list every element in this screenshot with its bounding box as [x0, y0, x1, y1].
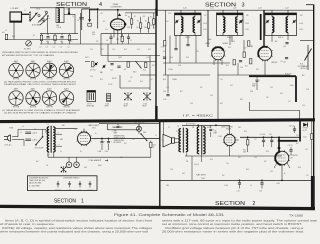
svg-text:1MEG: 1MEG	[144, 27, 148, 29]
svg-text:6.3: 6.3	[60, 151, 62, 153]
svg-text:BOTTOM: BOTTOM	[63, 106, 70, 108]
svg-text:150K: 150K	[306, 89, 309, 91]
svg-text:C-33: C-33	[305, 149, 308, 151]
svg-text:C-6: C-6	[106, 40, 108, 42]
svg-text:C-48: C-48	[163, 91, 166, 93]
svg-text:R-32: R-32	[220, 103, 223, 105]
svg-text:R-21: R-21	[245, 66, 248, 68]
svg-text:20,000-ohm resistance meter in: 20,000-ohm resistance meter in series wi…	[162, 229, 304, 233]
svg-text:C-40: C-40	[183, 8, 187, 10]
svg-text:B+: B+	[95, 133, 97, 135]
svg-text:BOTTOM: BOTTOM	[13, 106, 20, 108]
svg-text:TIE-UP: TIE-UP	[142, 106, 147, 108]
svg-text:R-16: R-16	[140, 81, 143, 83]
svg-text:C-21: C-21	[296, 135, 299, 137]
svg-text:C-9 OSC.: C-9 OSC.	[90, 70, 96, 72]
svg-text:R-7: R-7	[128, 17, 130, 19]
svg-text:L-2: L-2	[72, 16, 74, 18]
svg-text:ELECTRO.: ELECTRO.	[55, 189, 62, 191]
svg-text:BOTTOM: BOTTOM	[46, 106, 53, 108]
svg-text:6K6-GT: 6K6-GT	[226, 129, 231, 131]
svg-text:C-14: C-14	[105, 29, 108, 31]
svg-text:R-36: R-36	[298, 167, 301, 169]
svg-text:R-17: R-17	[166, 21, 169, 23]
svg-text:TO PIN 3: TO PIN 3	[303, 128, 309, 130]
svg-text:C-42: C-42	[233, 8, 237, 10]
svg-text:R-3: R-3	[40, 21, 42, 23]
svg-text:C-38: C-38	[168, 13, 171, 15]
svg-text:Items (A, B, C, D) in symbol o: Items (A, B, C, D) in symbol of band-swi…	[5, 218, 152, 222]
svg-text:7B6: 7B6	[250, 46, 253, 48]
svg-text:SW-1B: SW-1B	[84, 8, 88, 10]
svg-text:20MF: 20MF	[252, 86, 256, 88]
svg-text:R-12: R-12	[124, 49, 127, 51]
svg-text:2ND DET.: 2ND DET.	[271, 62, 278, 64]
svg-text:.05: .05	[250, 185, 252, 187]
svg-text:BOTTOM: BOTTOM	[30, 106, 37, 108]
svg-text:C-23 .01: C-23 .01	[289, 125, 294, 127]
svg-text:C-35: C-35	[226, 163, 229, 165]
svg-text:R-20: R-20	[186, 57, 189, 59]
svg-text:2.2MEG: 2.2MEG	[172, 79, 177, 81]
svg-text:22K: 22K	[96, 41, 98, 43]
svg-text:3RD I.F.: 3RD I.F.	[278, 37, 284, 39]
svg-text:PIN 2: PIN 2	[238, 127, 242, 129]
svg-text:C-3: C-3	[60, 47, 62, 49]
svg-text:C-45: C-45	[283, 46, 286, 48]
svg-text:BOTTOM: BOTTOM	[46, 79, 53, 81]
svg-text:C-32: C-32	[132, 139, 135, 141]
svg-text:R-27: R-27	[180, 91, 183, 93]
svg-text:R-22: R-22	[304, 136, 307, 138]
svg-text:10K: 10K	[200, 87, 202, 89]
svg-text:R-15: R-15	[100, 79, 103, 81]
svg-text:117V: 117V	[112, 127, 115, 129]
svg-text:C-1: C-1	[20, 132, 22, 134]
svg-text:FIL: FIL	[80, 151, 82, 153]
svg-text:C-3: C-3	[67, 47, 69, 49]
svg-text:Figure 41. Complete Schematic: Figure 41. Complete Schematic of Model 4…	[114, 213, 224, 217]
svg-text:C-22 .05: C-22 .05	[288, 145, 293, 147]
svg-text:C-2: C-2	[24, 10, 26, 12]
svg-text:C-53: C-53	[270, 87, 273, 89]
svg-text:C-21: C-21	[130, 77, 133, 79]
svg-text:RED: RED	[62, 125, 65, 127]
svg-text:R-34: R-34	[210, 159, 213, 161]
svg-text:R-23: R-23	[256, 69, 259, 71]
svg-text:2ND: 2ND	[246, 15, 249, 17]
svg-text:C-56: C-56	[210, 95, 213, 97]
svg-text:33: 33	[153, 146, 155, 148]
svg-text:R-14: R-14	[152, 65, 155, 67]
svg-text:R-24: R-24	[243, 150, 246, 152]
svg-text:C-47B: C-47B	[252, 84, 256, 86]
svg-text:7S7: 7S7	[291, 157, 294, 159]
svg-text:C-30: C-30	[120, 157, 123, 159]
svg-text:C-27: C-27	[254, 139, 257, 141]
svg-text:R-25: R-25	[238, 157, 241, 159]
svg-text:R-1: R-1	[33, 35, 35, 37]
svg-text:220K: 220K	[127, 27, 130, 29]
svg-text:R-18: R-18	[153, 144, 156, 146]
svg-text:BOTTOM: BOTTOM	[30, 79, 37, 81]
svg-text:SW-3: SW-3	[143, 132, 146, 134]
svg-text:C-8: C-8	[77, 20, 79, 22]
svg-text:2.2MEG: 2.2MEG	[168, 69, 173, 71]
svg-text:3RD: 3RD	[300, 15, 303, 17]
svg-text:10K: 10K	[70, 41, 72, 43]
svg-text:C-44: C-44	[285, 8, 289, 10]
svg-text:C-52: C-52	[220, 79, 223, 81]
svg-text:FUSE: FUSE	[10, 128, 14, 130]
svg-text:BOTTOM: BOTTOM	[13, 79, 20, 81]
svg-text:R-17: R-17	[124, 143, 127, 145]
svg-text:1MEG: 1MEG	[290, 85, 294, 87]
svg-text:2.2: 2.2	[5, 30, 7, 32]
svg-text:GRN: GRN	[60, 139, 63, 141]
svg-text:STRIP: STRIP	[105, 106, 109, 108]
svg-text:C-13: C-13	[128, 81, 131, 83]
svg-text:C-44: C-44	[232, 41, 235, 43]
svg-text:I.F. = 455KC: I.F. = 455KC	[183, 114, 214, 117]
svg-text:R-27: R-27	[296, 143, 299, 145]
svg-text:PM: PM	[186, 161, 188, 163]
svg-text:SECTION: SECTION	[215, 201, 246, 207]
svg-text:C-41: C-41	[210, 8, 214, 10]
svg-text:CONDENSER SYMBOLS: CONDENSER SYMBOLS	[63, 177, 80, 179]
svg-text:R-21: R-21	[226, 65, 229, 67]
svg-text:C-28: C-28	[259, 190, 262, 192]
svg-text:C-39: C-39	[161, 47, 164, 49]
svg-text:C-1B .05: C-1B .05	[32, 139, 38, 141]
svg-text:R-23: R-23	[244, 131, 247, 133]
svg-text:R-1 1MEG: R-1 1MEG	[24, 49, 31, 51]
svg-text:C-55: C-55	[166, 87, 169, 89]
svg-text:R-7: R-7	[145, 21, 147, 23]
svg-text:SECTION: SECTION	[205, 3, 236, 9]
svg-text:SW-2 ON-OFF: SW-2 ON-OFF	[35, 147, 44, 149]
svg-text:BLK: BLK	[36, 161, 39, 163]
svg-text:C-10: C-10	[100, 13, 103, 15]
svg-text:C-58: C-58	[190, 103, 193, 105]
svg-text:C-18: C-18	[137, 49, 140, 51]
svg-text:R-30: R-30	[300, 64, 303, 66]
svg-text:C-49 .05: C-49 .05	[194, 164, 199, 166]
svg-text:R-6: R-6	[125, 15, 127, 17]
svg-text:C-42B: C-42B	[245, 29, 249, 31]
svg-text:TO B+: TO B+	[163, 99, 167, 101]
svg-text:C-50: C-50	[240, 67, 243, 69]
svg-text:C-54: C-54	[237, 190, 240, 192]
svg-text:20MF: 20MF	[214, 133, 218, 135]
svg-text:TIE-UP: TIE-UP	[123, 106, 128, 108]
svg-text:C-11: C-11	[110, 70, 113, 72]
svg-text:C-29: C-29	[254, 157, 257, 159]
svg-text:T-2: T-2	[168, 127, 170, 129]
svg-text:SW-1C: SW-1C	[85, 57, 89, 59]
svg-text:C-3: C-3	[53, 47, 55, 49]
svg-text:OSC: OSC	[44, 11, 47, 13]
svg-text:5Y4: 5Y4	[74, 129, 77, 131]
svg-text:C-26: C-26	[214, 131, 217, 133]
svg-text:30MF: 30MF	[114, 133, 118, 135]
svg-text:455KC: 455KC	[118, 57, 122, 59]
svg-text:C-43: C-43	[258, 8, 262, 10]
svg-text:MEG: MEG	[12, 36, 15, 38]
svg-text:SPKR: SPKR	[98, 165, 102, 167]
svg-text:C-20: C-20	[90, 76, 93, 78]
svg-text:SW-1: SW-1	[133, 72, 137, 74]
svg-text:B+: B+	[284, 173, 286, 175]
svg-text:C-59: C-59	[302, 105, 305, 107]
svg-text:R-20: R-20	[163, 79, 166, 81]
svg-text:C-25: C-25	[269, 134, 272, 136]
svg-text:3: 3	[242, 3, 245, 9]
svg-text:L.W. ANT.: L.W. ANT.	[11, 7, 20, 10]
svg-text:C-19: C-19	[146, 57, 149, 59]
svg-text:GND: GND	[166, 185, 169, 187]
svg-text:C-24 .004: C-24 .004	[260, 134, 266, 136]
svg-text:COIL: COIL	[92, 34, 95, 36]
svg-text:R-11: R-11	[101, 49, 104, 51]
svg-text:6BA6: 6BA6	[206, 42, 210, 45]
svg-text:C-34: C-34	[270, 171, 273, 173]
svg-text:R-25: R-25	[230, 85, 233, 87]
svg-text:PILOT LIGHT #47: PILOT LIGHT #47	[134, 122, 145, 124]
svg-text:C-3: C-3	[46, 47, 48, 49]
svg-text:4: 4	[99, 2, 102, 8]
svg-text:R-19: R-19	[228, 47, 231, 49]
svg-text:2: 2	[253, 201, 256, 207]
svg-text:C-57: C-57	[288, 101, 291, 103]
svg-text:C-36: C-36	[170, 169, 173, 171]
svg-text:FIELD: FIELD	[207, 127, 211, 129]
svg-text:47K: 47K	[266, 97, 268, 99]
svg-text:5Y: 5Y	[58, 131, 60, 133]
svg-text:were measured between the poin: were measured between the points indicat…	[0, 229, 148, 233]
svg-text:C-28B: C-28B	[276, 183, 280, 185]
svg-text:R-7: R-7	[134, 16, 136, 18]
svg-text:C-37: C-37	[306, 175, 309, 177]
svg-text:K = 1000 OHMS: K = 1000 OHMS	[29, 185, 40, 187]
svg-text:C-49: C-49	[196, 51, 199, 53]
svg-text:35Y4: 35Y4	[92, 127, 96, 129]
svg-text:455 KC: 455 KC	[112, 78, 117, 80]
svg-text:.05: .05	[46, 41, 48, 43]
svg-text:C-30B: C-30B	[98, 151, 102, 153]
svg-text:TX-1000: TX-1000	[289, 213, 304, 217]
svg-text:R-18: R-18	[163, 51, 166, 53]
svg-text:GND: GND	[84, 167, 87, 169]
svg-text:C-48: C-48	[170, 57, 173, 59]
svg-text:1ST: 1ST	[204, 15, 207, 17]
svg-text:250K: 250K	[243, 152, 246, 154]
svg-text:1: 1	[81, 198, 84, 204]
svg-text:SECTION: SECTION	[54, 198, 76, 204]
svg-text:C-4: C-4	[48, 18, 50, 20]
svg-text:BOTTOM: BOTTOM	[63, 79, 70, 81]
svg-text:C-15: C-15	[90, 49, 93, 51]
svg-text:R-35: R-35	[182, 173, 185, 175]
svg-text:47K: 47K	[136, 27, 138, 29]
svg-text:100K: 100K	[178, 65, 181, 67]
svg-text:C-12: C-12	[150, 25, 153, 27]
svg-text:C-54B: C-54B	[201, 178, 205, 180]
svg-text:YEL: YEL	[46, 165, 49, 167]
svg-text:R-13: R-13	[148, 49, 151, 51]
svg-text:R-26: R-26	[266, 151, 269, 153]
svg-text:R-8: R-8	[143, 16, 145, 18]
svg-text:C-43B: C-43B	[299, 29, 303, 31]
svg-text:R-29 150K: R-29 150K	[285, 74, 292, 76]
svg-text:4 LUG: 4 LUG	[124, 103, 128, 105]
svg-text:R-2: R-2	[117, 39, 119, 41]
svg-text:R-9: R-9	[124, 69, 126, 71]
svg-text:R-7: R-7	[137, 21, 139, 23]
svg-text:OF 7S7: OF 7S7	[303, 130, 308, 132]
svg-text:R-10: R-10	[143, 70, 146, 72]
svg-text:CONVERTER: CONVERTER	[111, 7, 123, 9]
svg-text:R-4: R-4	[2, 32, 4, 34]
svg-text:of chassis to rear, in sequenc: of chassis to rear, in sequence.	[0, 222, 55, 226]
svg-text:C-3: C-3	[39, 47, 41, 49]
svg-text:C-17: C-17	[47, 154, 50, 156]
svg-text:6.3V: 6.3V	[58, 143, 61, 145]
svg-text:85V: 85V	[222, 175, 224, 177]
svg-text:1ST I.F.: 1ST I.F.	[87, 103, 92, 105]
svg-text:C-7: C-7	[130, 40, 132, 42]
svg-text:2 LUG: 2 LUG	[105, 103, 109, 105]
svg-text:C-41B: C-41B	[203, 29, 207, 31]
svg-text:.01: .01	[60, 41, 62, 43]
svg-text:series with a 117-volt, 60-cyc: series with a 117-volt, 60-cycle a-c inp…	[162, 218, 318, 222]
svg-text:R-26: R-26	[280, 93, 283, 95]
svg-text:C-30C: C-30C	[105, 151, 109, 153]
svg-text:L-4: L-4	[22, 126, 24, 128]
svg-text:R-7: R-7	[150, 17, 152, 19]
svg-text:C-51: C-51	[280, 61, 283, 63]
svg-text:R-28: R-28	[240, 99, 243, 101]
svg-text:4 LUG: 4 LUG	[143, 103, 147, 105]
svg-text:R-5: R-5	[103, 21, 105, 23]
svg-text:T-2: T-2	[177, 126, 179, 128]
svg-text:R-33: R-33	[246, 169, 249, 171]
svg-text:T-1: T-1	[47, 124, 49, 126]
svg-text:C-5: C-5	[66, 9, 68, 11]
svg-text:C-16: C-16	[112, 49, 115, 51]
svg-text:220K: 220K	[250, 91, 253, 93]
svg-text:C-46: C-46	[283, 62, 286, 64]
svg-text:set at minimum, tone control a: set at minimum, tone control at maximum …	[162, 222, 302, 226]
svg-text:10K: 10K	[264, 161, 266, 163]
svg-text:C-31: C-31	[150, 79, 153, 81]
svg-text:NET B,C,D: NET B,C,D	[301, 68, 308, 70]
